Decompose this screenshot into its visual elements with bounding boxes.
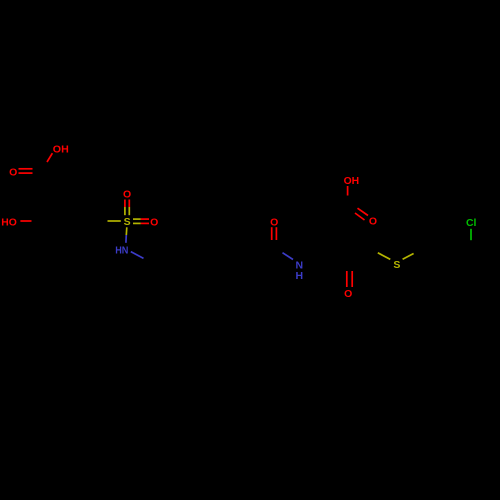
svg-text:S: S: [393, 259, 400, 271]
bond Cl-ring (green half): [470, 229, 472, 240]
bond ring-OH (phenol, half red): [20, 220, 31, 222]
bond S-N (yellow top half, blue bottom half): [125, 227, 128, 235]
svg-text:S: S: [124, 216, 131, 228]
double bond S=O vertical (red top half, yellow bottom half): [124, 200, 126, 208]
svg-text:HO: HO: [1, 216, 17, 228]
svg-text:O: O: [270, 217, 278, 229]
bond CH2-S (yellow half, left): [378, 253, 391, 260]
double bond C=O (right carboxyl, red halves): [358, 208, 369, 215]
bond C-N (amide, blue half): [283, 253, 294, 260]
bond N-CH2 (blue half): [131, 252, 144, 259]
svg-text:O: O: [150, 216, 158, 228]
bond ring-S (yellow half): [108, 220, 121, 222]
double bond C=O (carboxyl, red halves): [19, 168, 33, 170]
svg-text:O: O: [344, 288, 352, 300]
double bond C=O (ketone, red halves): [346, 271, 348, 287]
bond S-CH2 (yellow half, right): [403, 254, 414, 260]
double bond S=O horizontal (yellow left half, red right half): [133, 218, 141, 220]
bond C-OH (right carboxyl, red half): [347, 186, 349, 196]
svg-text:OH: OH: [53, 143, 69, 155]
svg-text:O: O: [123, 189, 131, 201]
svg-text:O: O: [369, 216, 377, 228]
svg-text:Cl: Cl: [466, 217, 477, 229]
svg-text:HN: HN: [115, 245, 128, 257]
svg-text:H: H: [296, 270, 304, 282]
svg-text:OH: OH: [344, 175, 360, 187]
double bond C=O (amide, red halves): [271, 227, 273, 240]
bond C-OH (carboxyl, half red): [47, 153, 52, 162]
svg-text:O: O: [9, 167, 17, 179]
